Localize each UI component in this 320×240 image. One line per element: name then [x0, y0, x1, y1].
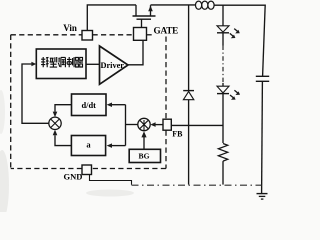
svg-text:Driver: Driver [101, 61, 125, 70]
svg-text:GND: GND [64, 172, 83, 182]
svg-text:GATE: GATE [154, 25, 179, 35]
svg-text:FB: FB [172, 130, 183, 139]
svg-text:BG: BG [139, 152, 150, 161]
svg-text:Vin: Vin [63, 23, 77, 33]
svg-text:d/dt: d/dt [81, 101, 96, 110]
